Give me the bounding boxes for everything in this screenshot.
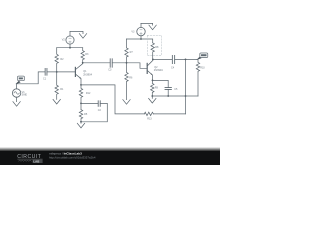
capacitor C1 [45,68,47,75]
node (emitter divider junction) [80,103,82,105]
svg-text:R6: R6 [129,76,133,79]
wire (C2 return loop) [81,103,107,121]
svg-text:R7: R7 [130,51,134,54]
svg-text:LAB: LAB [33,159,39,163]
node (Q2 collector) [152,59,154,61]
node (Q1 collector) [82,62,84,64]
resistor R8 (Q2 collector load) [151,43,154,60]
wire (C1 to Q1 base) [47,71,75,73]
ground (below V1) [13,102,20,107]
node (V2 to rail) [69,47,71,49]
wire (V3 plus to ground) [141,23,153,25]
node (C5 bottom) [167,95,169,97]
capacitor C2 (bypass) [98,101,100,107]
resistor R5 (Q1 emitter lower) [79,103,82,121]
svg-text:C2: C2 [98,109,102,112]
resistor R1 [55,72,58,100]
Q2 labels [154,66,164,72]
resistor R7 (upper bias) [125,39,128,63]
wire (R10 bottom to ground node) [186,95,199,97]
node (R9 ground stem) [151,95,153,97]
svg-text:2N3904: 2N3904 [154,68,164,72]
wire (emitter ground bus) [152,95,185,97]
node (R5 bottom) [80,121,82,123]
wire (C4 to output node) [175,58,198,60]
selection box (dashed, around R8) [147,35,161,55]
node (divider junction) [56,71,58,73]
voltage source V1 (AC, input) [12,84,20,102]
V1 labels [22,91,28,97]
wire (feedback riser, output node to bottom rail) [185,59,187,114]
resistor R9 (Q2 emitter) [151,80,154,96]
svg-text:http://circuitlab.com/c92dd335: http://circuitlab.com/c92dd3357a2b4 [49,155,96,159]
ground (V3 return) [149,25,156,30]
ground (V2 return) [79,34,86,39]
svg-text:R10: R10 [200,67,205,70]
wire (junction to C2) [81,102,98,104]
svg-text:C3: C3 [108,69,112,72]
node (R6/R7 junction on base wire) [126,62,128,64]
ground (below R1) [53,99,60,104]
ground (below R6) [123,100,130,105]
node (Q2 emitter) [152,80,154,82]
svg-text:2N3904: 2N3904 [83,73,93,77]
svg-text:R13: R13 [147,117,152,120]
voltage source V3 (DC supply stage 2) [137,23,145,39]
svg-text:R12: R12 [86,92,91,95]
svg-text:R1: R1 [60,88,64,91]
resistor R10 (load) [196,59,199,96]
CircuitLab logo [17,154,42,163]
svg-text:R2: R2 [60,58,64,61]
node (Q1 emitter / feedback tap) [80,84,82,86]
svg-text:R3: R3 [85,53,89,56]
voltage source V2 (DC supply stage 1) [66,31,74,47]
wire (supply rail stage 2) [127,39,153,43]
wire (emitter node to C5) [153,80,169,87]
svg-text:R9: R9 [155,86,159,89]
wire (V1 top to C1) [17,72,45,84]
wire (Q2 collector to C4) [153,58,172,60]
svg-text:V1: V1 [22,91,26,94]
wire (bottom rail right segment) [153,113,185,115]
node (feedback riser crossing) [185,95,187,97]
capacitor C3 (interstage coupling) [110,59,112,67]
resistor R2 [55,48,58,72]
svg-text:C1: C1 [43,77,47,80]
svg-text:R5: R5 [84,113,88,116]
svg-text:SINE: SINE [22,95,28,97]
node (V3 to rail) [140,38,142,40]
transistor Q2 (NPN 2N3904) [147,59,153,80]
watermark bar [0,147,220,152]
wire (C3 to Q2 base with jog) [112,63,147,69]
ground (below R5) [77,122,84,128]
wire (Q1 collector to C3) [83,62,111,64]
Q1 labels [83,70,93,76]
svg-text:R8: R8 [155,46,159,49]
node flag "Vin" [15,76,24,84]
capacitor C5 (emitter bypass) [165,88,171,96]
transistor Q1 (NPN 2N3904) [75,63,82,85]
ground (stage 2 emitter) [149,96,156,103]
wire (supply rail stage 1) [57,47,83,49]
resistor R3 [81,48,84,63]
wire (bottom rail left segment to Q1 emitter) [81,85,144,114]
svg-text:V3: V3 [131,31,135,34]
resistor R6 (lower bias) [125,63,128,100]
svg-text:C5: C5 [174,88,178,91]
wire (V2 plus to ground) [70,31,83,33]
node (output / feedback junction) [185,59,187,61]
svg-text:V2: V2 [62,39,66,42]
node flag "Vout" [196,53,207,60]
resistor R12 (Q1 emitter upper) [79,85,82,104]
svg-text:C4: C4 [171,67,175,70]
capacitor C4 (output coupling) [172,55,174,63]
resistor R13 (feedback, horizontal) [144,112,153,115]
